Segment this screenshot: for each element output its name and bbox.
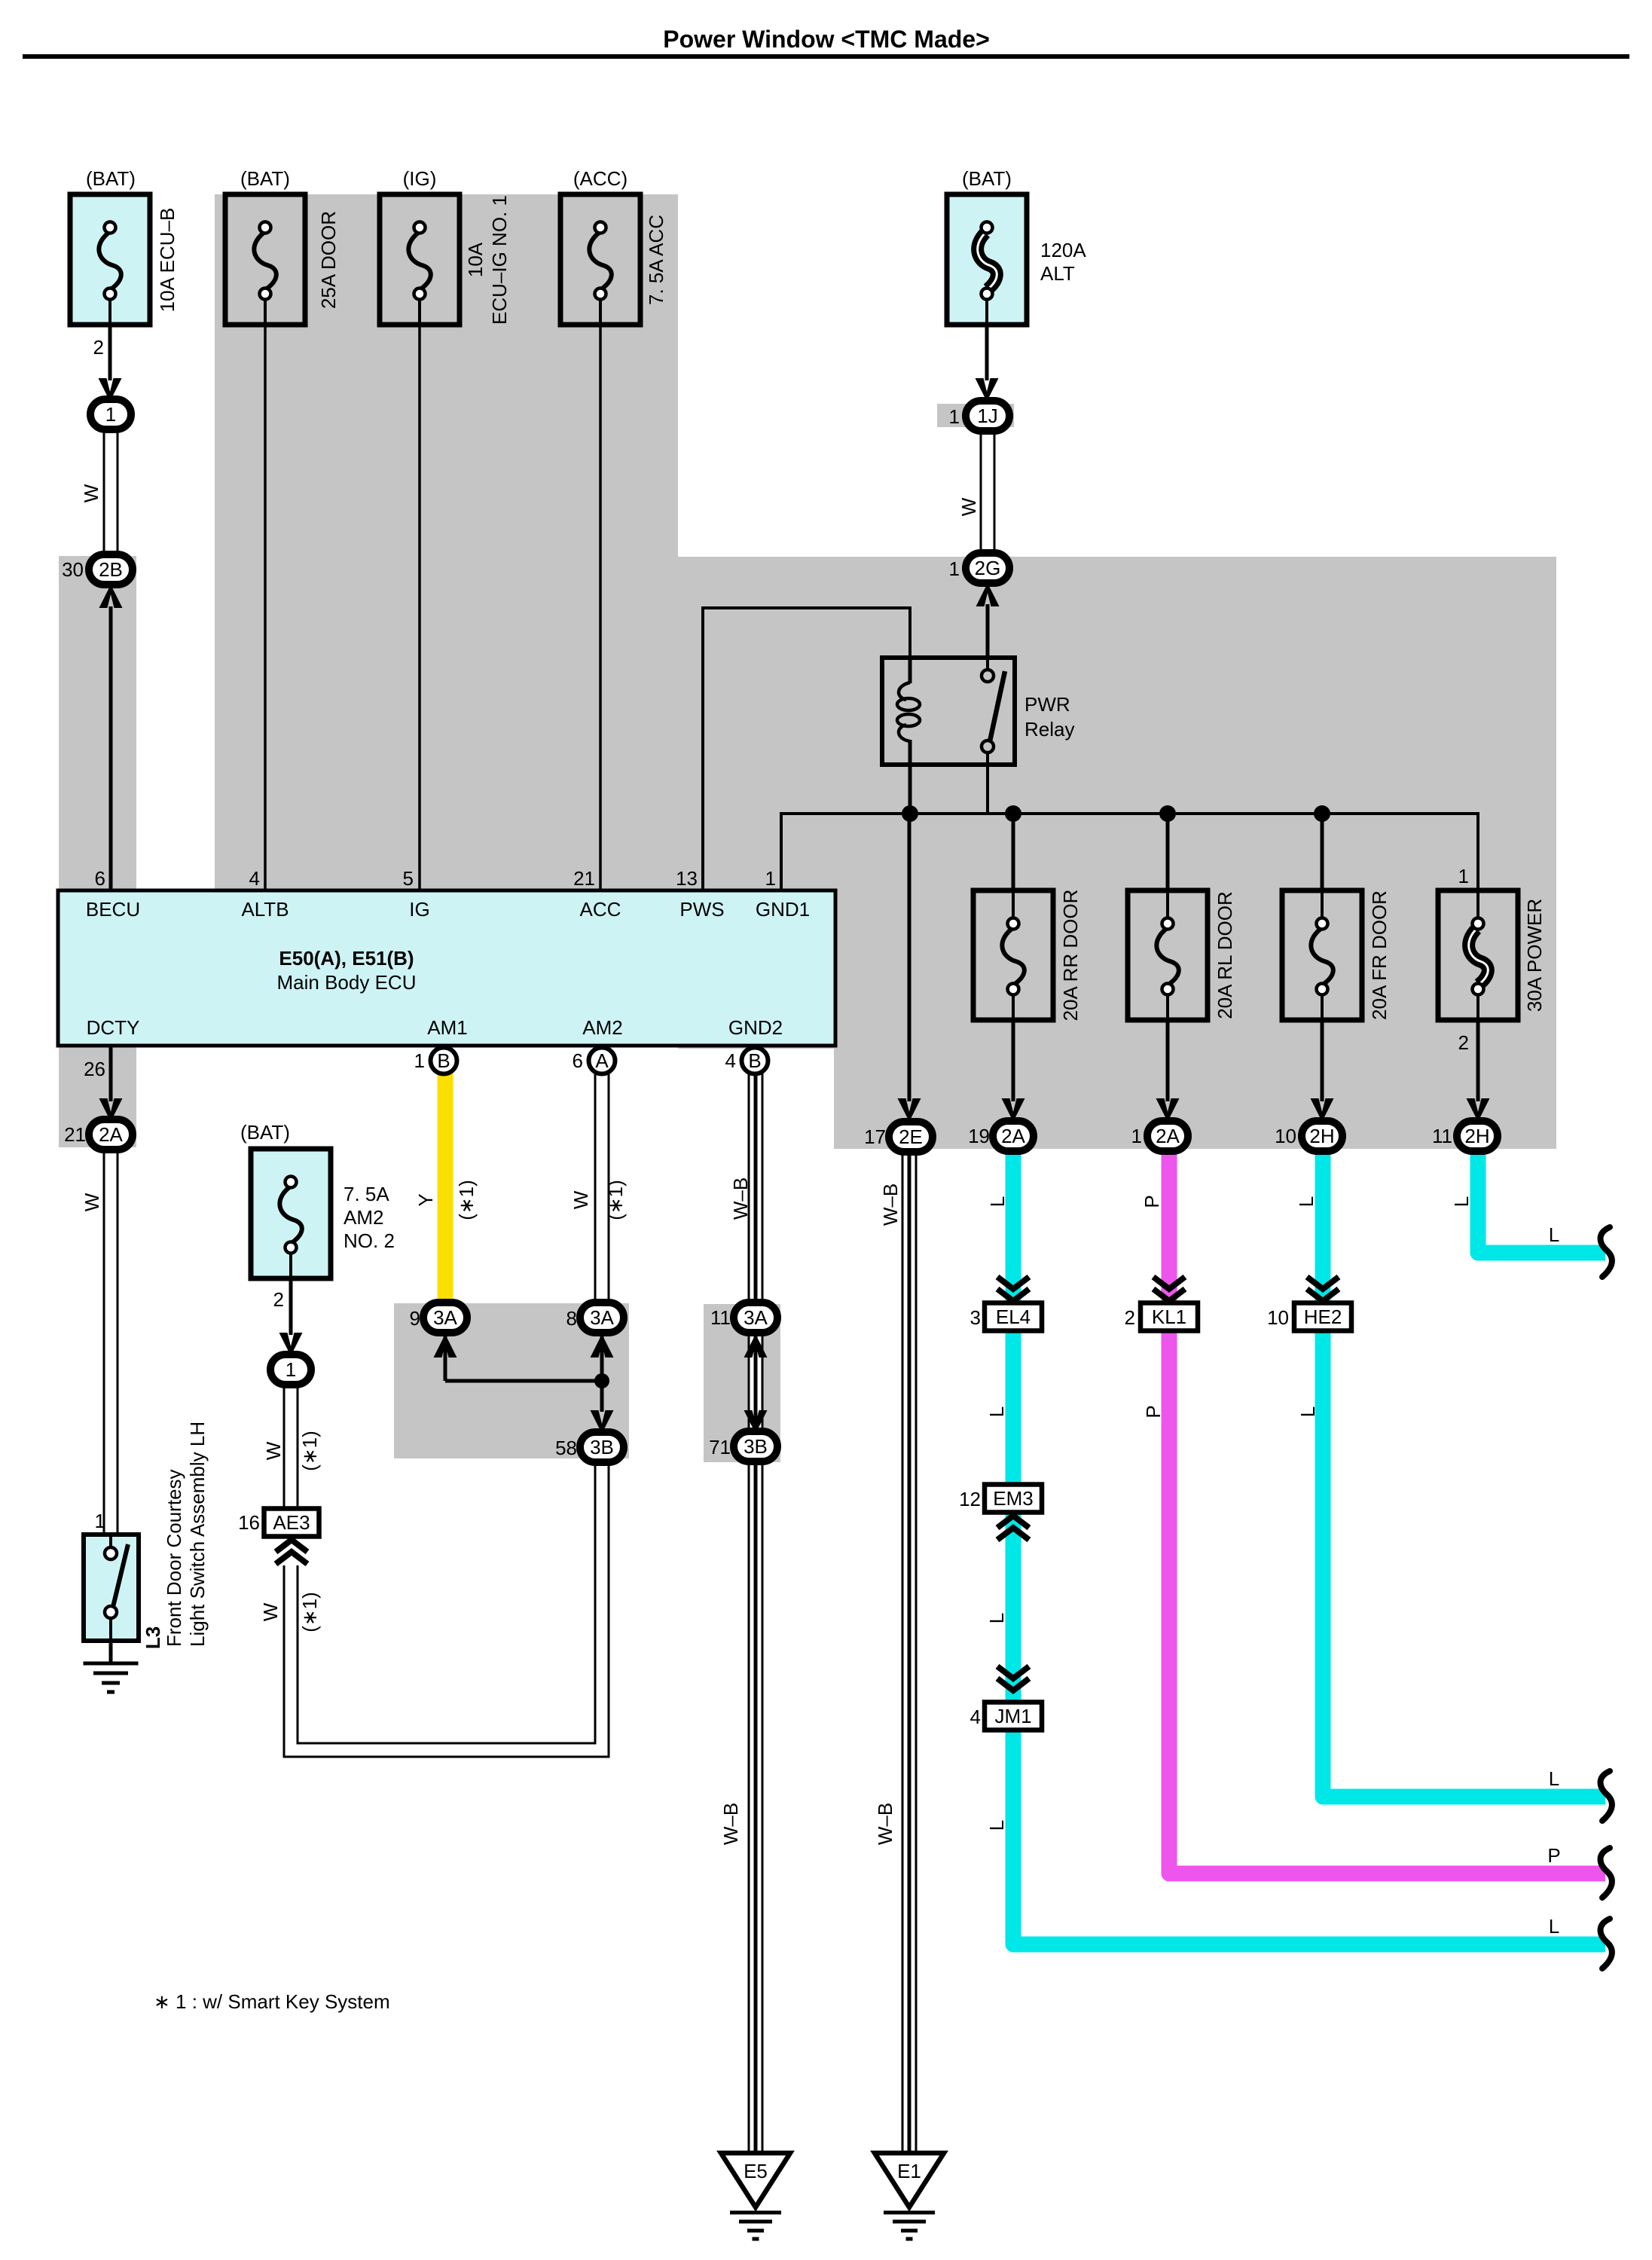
svg-text:IG: IG <box>409 898 429 921</box>
svg-text:L: L <box>985 1406 1008 1417</box>
svg-text:2: 2 <box>1458 1031 1469 1054</box>
svg-text:W–B: W–B <box>719 1803 742 1845</box>
svg-text:W: W <box>262 1441 285 1460</box>
svg-text:EM3: EM3 <box>993 1487 1033 1510</box>
svg-text:2: 2 <box>93 336 104 359</box>
svg-text:2: 2 <box>273 1288 284 1311</box>
svg-text:DCTY: DCTY <box>87 1016 140 1039</box>
svg-text:2A: 2A <box>1156 1125 1180 1147</box>
svg-text:10: 10 <box>1275 1125 1296 1147</box>
svg-text:1: 1 <box>765 867 776 890</box>
svg-text:L: L <box>1549 1223 1559 1246</box>
svg-text:W: W <box>259 1602 282 1621</box>
svg-text:L: L <box>1296 1406 1319 1417</box>
svg-text:9: 9 <box>410 1307 420 1330</box>
svg-text:6: 6 <box>573 1049 583 1072</box>
svg-text:AM2: AM2 <box>582 1016 622 1039</box>
svg-text:W: W <box>81 1193 103 1211</box>
svg-text:3A: 3A <box>744 1306 768 1329</box>
svg-text:3A: 3A <box>590 1306 614 1329</box>
svg-text:Light Switch Assembly LH: Light Switch Assembly LH <box>186 1422 209 1647</box>
svg-text:(∗1): (∗1) <box>298 1592 321 1632</box>
svg-text:2A: 2A <box>99 1123 123 1146</box>
svg-text:GND1: GND1 <box>756 898 810 921</box>
svg-text:W: W <box>957 497 980 516</box>
svg-text:20A FR DOOR: 20A FR DOOR <box>1368 890 1391 1020</box>
svg-text:1: 1 <box>95 1510 105 1532</box>
svg-text:L3: L3 <box>142 1626 164 1649</box>
svg-text:1J: 1J <box>977 405 997 427</box>
svg-text:25A DOOR: 25A DOOR <box>317 211 340 309</box>
svg-text:Relay: Relay <box>1024 718 1074 741</box>
svg-text:(BAT): (BAT) <box>240 167 290 190</box>
svg-text:W–B: W–B <box>874 1803 896 1845</box>
svg-text:P: P <box>1547 1844 1560 1867</box>
svg-text:1: 1 <box>1458 865 1469 887</box>
svg-text:ACC: ACC <box>580 898 621 921</box>
svg-text:1: 1 <box>286 1358 296 1381</box>
svg-text:AM1: AM1 <box>427 1016 467 1039</box>
svg-text:20A RR DOOR: 20A RR DOOR <box>1059 890 1082 1022</box>
svg-text:8: 8 <box>566 1307 577 1330</box>
svg-text:W–B: W–B <box>879 1183 902 1226</box>
svg-text:BECU: BECU <box>86 898 140 921</box>
svg-text:PWR: PWR <box>1024 693 1070 716</box>
svg-text:AM2: AM2 <box>344 1206 383 1229</box>
svg-text:6: 6 <box>95 867 105 890</box>
svg-text:AE3: AE3 <box>273 1511 310 1534</box>
svg-text:P: P <box>1141 1195 1163 1208</box>
svg-text:1: 1 <box>1131 1125 1142 1147</box>
svg-text:2E: 2E <box>899 1125 923 1148</box>
svg-text:ALT: ALT <box>1040 262 1075 285</box>
svg-text:JM1: JM1 <box>994 1705 1031 1727</box>
svg-text:(BAT): (BAT) <box>86 167 136 190</box>
svg-text:A: A <box>595 1049 609 1072</box>
svg-text:(∗1): (∗1) <box>455 1180 478 1220</box>
svg-text:10A: 10A <box>464 242 487 277</box>
svg-text:21: 21 <box>64 1123 86 1146</box>
svg-text:L: L <box>985 1820 1008 1831</box>
svg-text:GND2: GND2 <box>728 1016 783 1039</box>
svg-text:2: 2 <box>1125 1306 1135 1329</box>
svg-text:4: 4 <box>725 1049 736 1072</box>
svg-text:(IG): (IG) <box>403 167 437 190</box>
svg-text:3: 3 <box>970 1306 981 1329</box>
svg-text:(BAT): (BAT) <box>962 167 1012 190</box>
svg-text:(ACC): (ACC) <box>573 167 628 190</box>
svg-text:B: B <box>748 1049 761 1072</box>
svg-text:10: 10 <box>1267 1306 1289 1329</box>
svg-text:L: L <box>1295 1196 1318 1207</box>
svg-text:26: 26 <box>84 1058 105 1080</box>
svg-text:71: 71 <box>709 1436 731 1458</box>
svg-text:P: P <box>1142 1405 1165 1418</box>
svg-text:2G: 2G <box>975 557 1001 579</box>
svg-text:1: 1 <box>105 403 116 426</box>
svg-text:KL1: KL1 <box>1152 1306 1186 1328</box>
svg-text:5: 5 <box>403 867 414 890</box>
svg-text:E1: E1 <box>897 2160 921 2182</box>
svg-text:3A: 3A <box>433 1306 457 1329</box>
svg-text:L: L <box>1549 1767 1559 1790</box>
svg-text:(∗1): (∗1) <box>604 1180 627 1220</box>
svg-text:3B: 3B <box>590 1436 614 1458</box>
svg-text:EL4: EL4 <box>996 1306 1031 1328</box>
svg-text:2H: 2H <box>1309 1125 1334 1147</box>
svg-text:L: L <box>1549 1915 1559 1938</box>
svg-text:L: L <box>1450 1196 1473 1207</box>
svg-text:11: 11 <box>710 1306 731 1329</box>
svg-text:L: L <box>985 1613 1008 1623</box>
svg-text:(BAT): (BAT) <box>240 1121 290 1144</box>
svg-text:2H: 2H <box>1464 1125 1489 1147</box>
svg-text:19: 19 <box>968 1125 990 1147</box>
svg-text:2A: 2A <box>1001 1125 1025 1147</box>
svg-text:4: 4 <box>249 867 260 890</box>
svg-text:10A ECU–B: 10A ECU–B <box>156 208 179 313</box>
svg-text:1: 1 <box>949 557 960 580</box>
svg-text:Power Window <TMC Made>: Power Window <TMC Made> <box>663 26 990 53</box>
svg-text:30A POWER: 30A POWER <box>1523 899 1546 1012</box>
svg-text:58: 58 <box>555 1437 577 1459</box>
svg-text:W: W <box>569 1190 592 1209</box>
svg-text:7. 5A ACC: 7. 5A ACC <box>645 215 667 305</box>
svg-text:7. 5A: 7. 5A <box>344 1183 389 1205</box>
svg-text:13: 13 <box>676 867 698 890</box>
svg-text:L: L <box>986 1196 1009 1207</box>
svg-text:Front Door Courtesy: Front Door Courtesy <box>163 1469 185 1647</box>
svg-text:ECU–IG NO. 1: ECU–IG NO. 1 <box>488 195 511 325</box>
svg-text:4: 4 <box>970 1706 981 1728</box>
svg-text:E5: E5 <box>744 2160 768 2182</box>
svg-text:Y: Y <box>414 1193 437 1206</box>
svg-text:PWS: PWS <box>679 898 724 921</box>
svg-text:2B: 2B <box>99 558 123 581</box>
svg-text:12: 12 <box>959 1488 981 1510</box>
svg-text:11: 11 <box>1432 1125 1452 1147</box>
svg-text:1: 1 <box>414 1049 425 1072</box>
svg-text:B: B <box>437 1049 450 1072</box>
svg-text:ALTB: ALTB <box>241 898 289 921</box>
svg-text:21: 21 <box>573 867 595 890</box>
svg-text:NO. 2: NO. 2 <box>344 1229 395 1252</box>
svg-text:E50(A), E51(B): E50(A), E51(B) <box>279 947 414 970</box>
svg-text:Main Body ECU: Main Body ECU <box>277 971 417 994</box>
svg-text:∗ 1 : w/ Smart Key System: ∗ 1 : w/ Smart Key System <box>154 1990 390 2013</box>
svg-text:120A: 120A <box>1040 239 1086 261</box>
svg-text:HE2: HE2 <box>1304 1306 1342 1328</box>
svg-text:1: 1 <box>949 405 960 428</box>
svg-text:30: 30 <box>62 558 84 581</box>
svg-text:16: 16 <box>238 1511 260 1534</box>
svg-text:W–B: W–B <box>729 1177 752 1220</box>
svg-text:17: 17 <box>864 1125 886 1148</box>
svg-text:W: W <box>80 484 102 502</box>
svg-text:3B: 3B <box>744 1435 768 1458</box>
svg-text:20A RL DOOR: 20A RL DOOR <box>1214 891 1236 1019</box>
svg-text:(∗1): (∗1) <box>298 1431 321 1471</box>
